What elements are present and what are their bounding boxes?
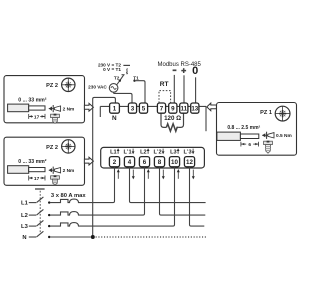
svg-text:0: 0 — [192, 65, 198, 77]
svg-text:N: N — [112, 115, 117, 122]
svg-text:0 V = T1: 0 V = T1 — [103, 67, 121, 72]
svg-text:L2: L2 — [21, 213, 28, 219]
svg-text:L1: L1 — [110, 150, 117, 156]
svg-text:L3: L3 — [21, 224, 29, 230]
svg-text:3 x 80 A max: 3 x 80 A max — [51, 193, 86, 199]
svg-text:17: 17 — [34, 114, 40, 120]
svg-text:6: 6 — [248, 142, 251, 148]
svg-text:6: 6 — [143, 159, 147, 166]
svg-text:9: 9 — [171, 105, 175, 112]
svg-text:T2: T2 — [114, 75, 120, 80]
svg-text:3: 3 — [131, 105, 135, 112]
svg-text:230 VAC: 230 VAC — [88, 85, 107, 90]
svg-text:8: 8 — [158, 159, 162, 166]
svg-text:0 ... 33 mm²: 0 ... 33 mm² — [18, 97, 47, 103]
svg-text:PZ 2: PZ 2 — [46, 83, 58, 89]
svg-text:10: 10 — [171, 159, 178, 166]
svg-text:120 Ω: 120 Ω — [164, 115, 181, 122]
svg-text:5: 5 — [142, 105, 146, 112]
svg-text:7: 7 — [160, 105, 164, 112]
svg-text:12: 12 — [186, 159, 193, 166]
svg-text:4: 4 — [128, 159, 132, 166]
svg-text:L2: L2 — [140, 150, 147, 156]
svg-text:Lʼ1: Lʼ1 — [124, 150, 132, 156]
svg-text:0.5 Nm: 0.5 Nm — [276, 133, 292, 139]
svg-text:T1: T1 — [133, 75, 139, 80]
svg-text:PZ 1: PZ 1 — [260, 110, 272, 116]
svg-text:L1: L1 — [21, 201, 29, 207]
svg-text:L3: L3 — [170, 150, 177, 156]
svg-text:2 Nm: 2 Nm — [63, 107, 75, 113]
svg-text:2: 2 — [113, 159, 117, 166]
svg-text:RT: RT — [160, 81, 169, 88]
svg-text:11: 11 — [181, 105, 188, 112]
svg-text:Lʼ2: Lʼ2 — [154, 150, 162, 156]
svg-text:13: 13 — [191, 105, 198, 112]
svg-text:N: N — [22, 235, 26, 241]
svg-text:Lʼ3: Lʼ3 — [184, 150, 192, 156]
svg-text:1: 1 — [113, 105, 117, 112]
svg-text:0.8 ... 2.5 mm²: 0.8 ... 2.5 mm² — [227, 125, 260, 131]
